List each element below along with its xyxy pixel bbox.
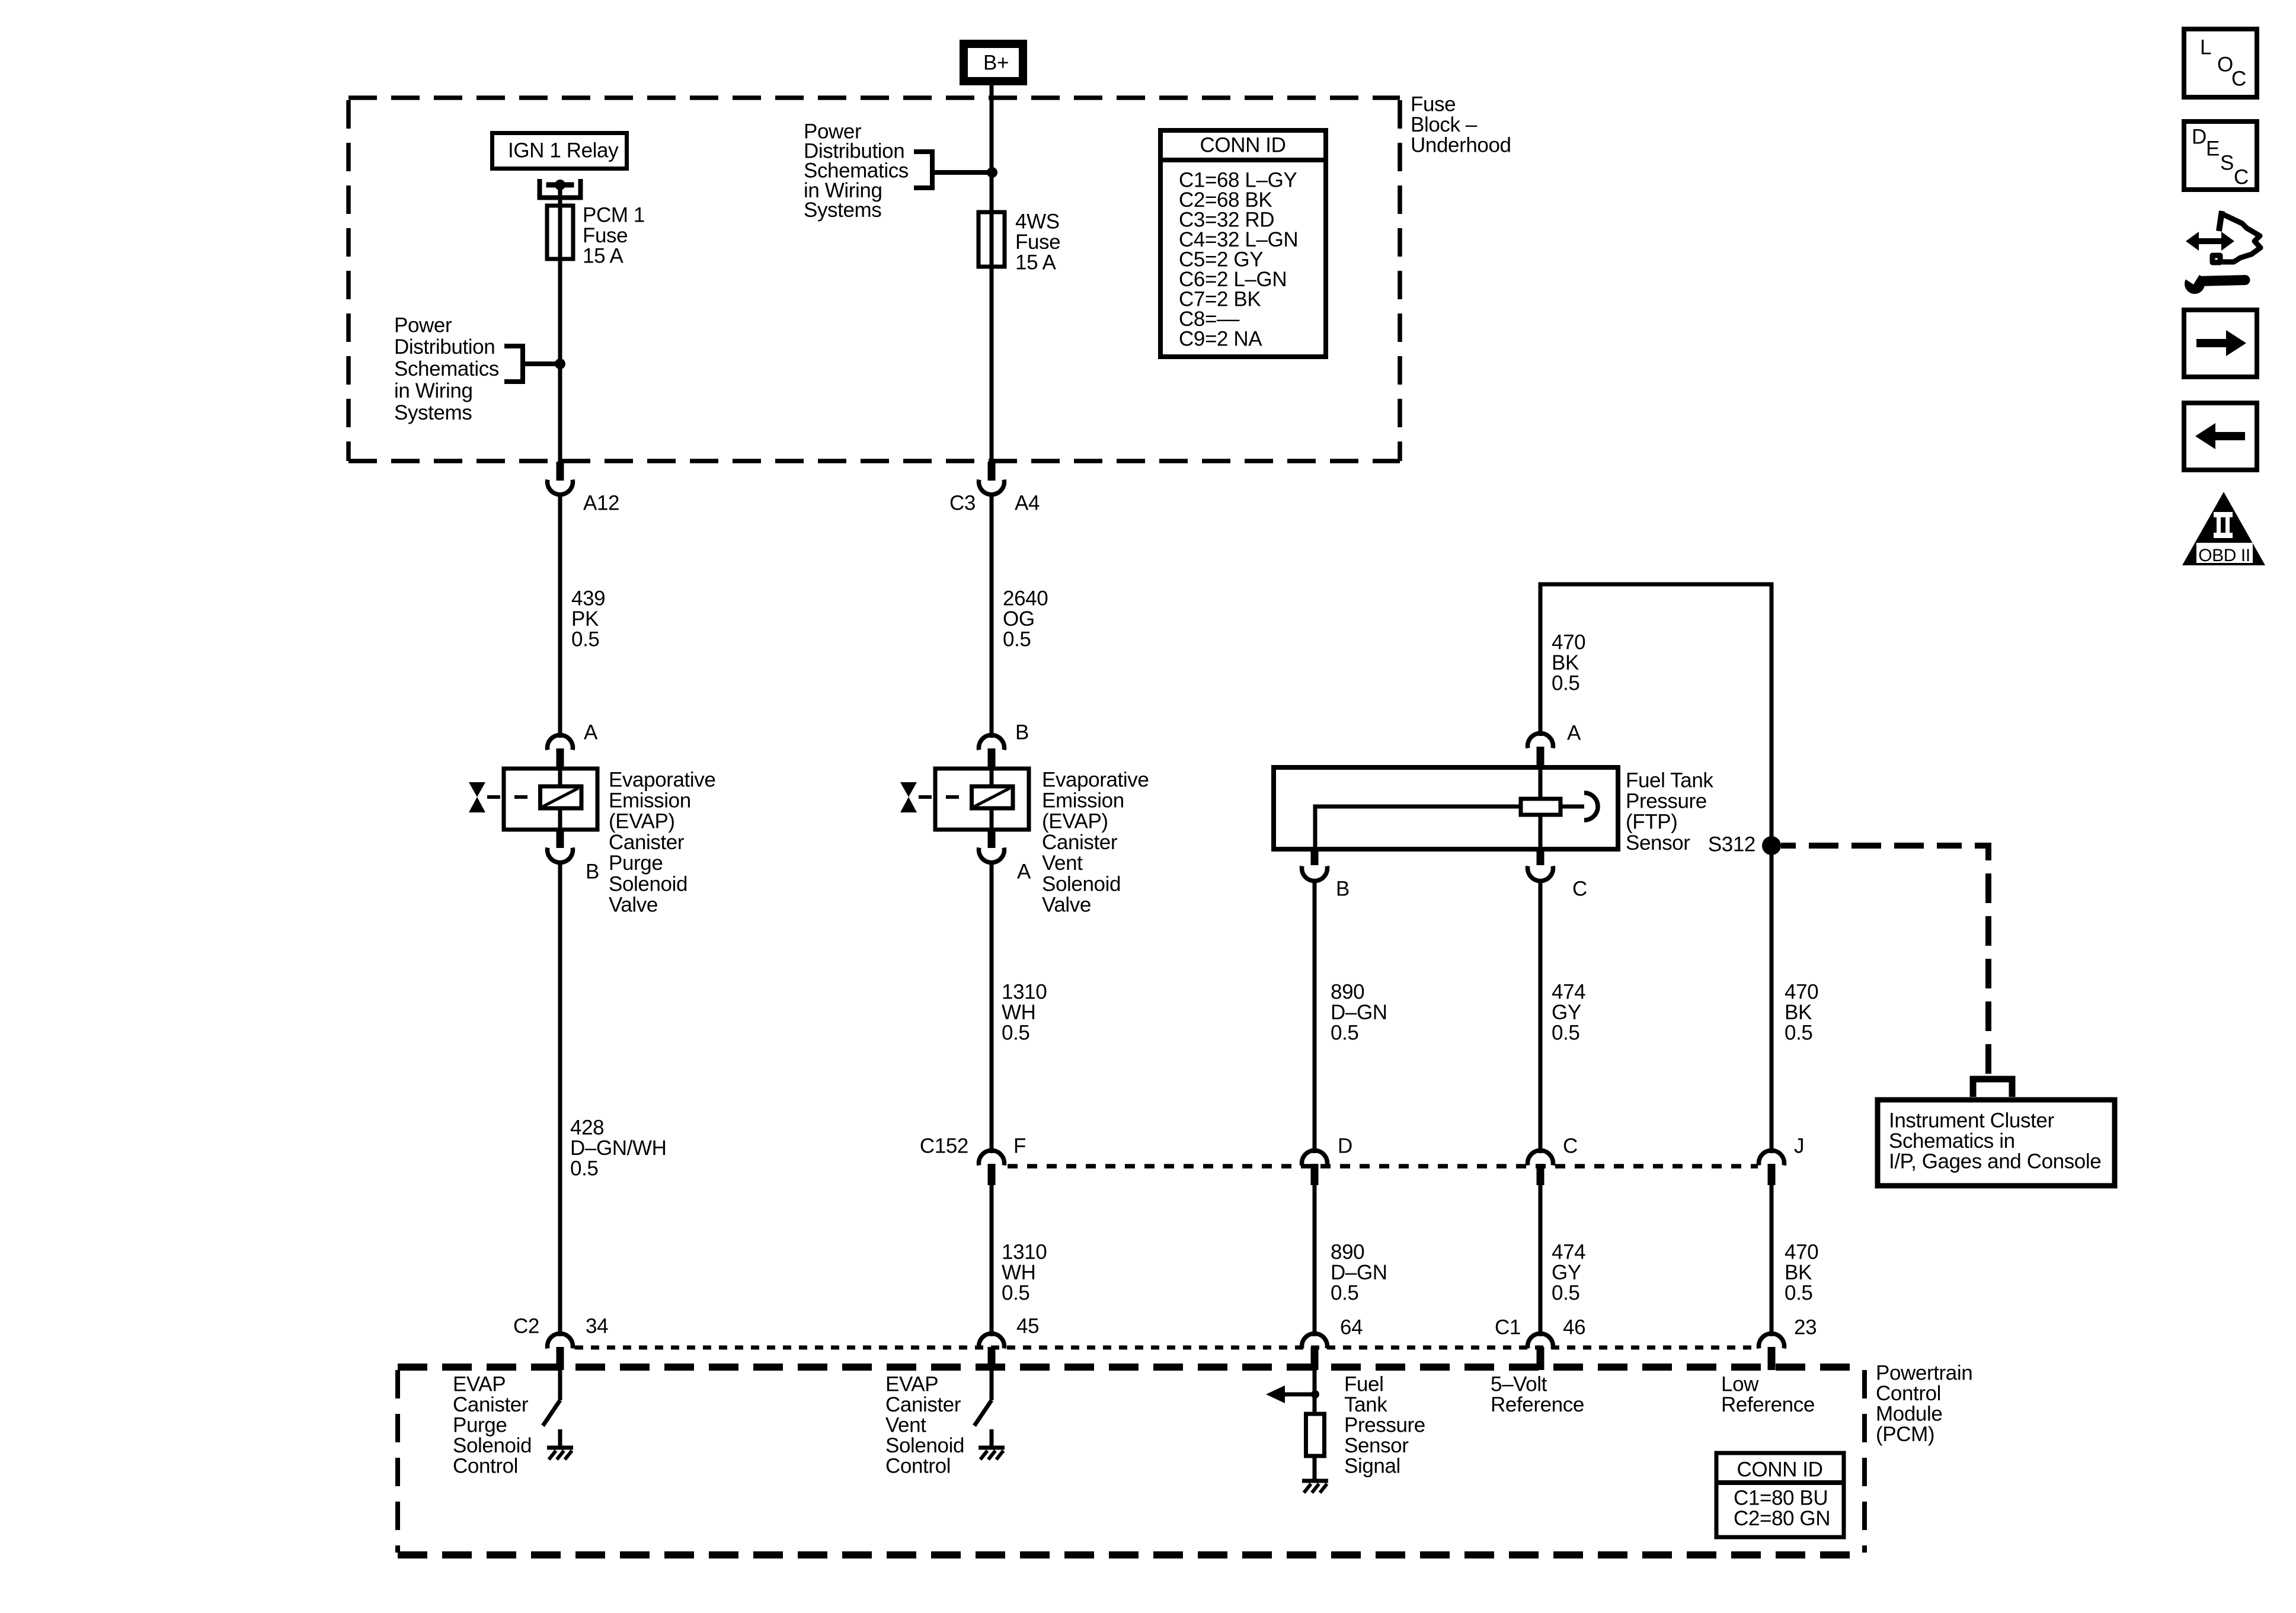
connector cup 45 at PCM [979, 1333, 1005, 1348]
wire: B+ down to fuse block edge [990, 81, 994, 462]
powertrain control module dashed boundary box [398, 1367, 1865, 1555]
svg-text:in Wiring: in Wiring [394, 379, 473, 402]
svg-text:1310: 1310 [1002, 980, 1047, 1003]
svg-text:B: B [1015, 721, 1029, 744]
svg-text:0.5: 0.5 [1002, 1022, 1029, 1045]
switch: EVAP canister vent solenoid control driver [974, 1400, 992, 1426]
label: 45 [1016, 1314, 1039, 1337]
svg-text:BK: BK [1785, 1261, 1812, 1284]
svg-text:Distribution: Distribution [394, 335, 495, 359]
label: Evaporative Emission (EVAP) Canister Purge Solenoid Valve [609, 768, 715, 916]
svg-text:A: A [1567, 721, 1581, 744]
svg-text:PK: PK [571, 607, 599, 631]
svg-text:C9=2 NA: C9=2 NA [1179, 327, 1262, 350]
wire 1310 lower segment [990, 1185, 994, 1336]
connector cup A12 [548, 480, 573, 495]
svg-text:Instrument Cluster: Instrument Cluster [1889, 1109, 2054, 1132]
instrument cluster reference box [1878, 1100, 2115, 1186]
label: 34 [586, 1314, 608, 1337]
svg-text:46: 46 [1563, 1316, 1585, 1339]
svg-text:Module: Module [1876, 1403, 1942, 1426]
svg-text:F: F [1013, 1134, 1026, 1157]
connector pin F [988, 1164, 996, 1185]
svg-text:GY: GY [1552, 1001, 1581, 1024]
svg-text:Purge: Purge [609, 852, 663, 875]
icon: OBD II triangle [2182, 492, 2265, 565]
svg-text:Evaporative: Evaporative [609, 768, 715, 791]
connector cup 23 at PCM [1759, 1333, 1785, 1348]
connector cup 64 at PCM [1302, 1333, 1328, 1348]
wire 470 lower segment [1770, 1185, 1774, 1336]
svg-text:Pressure: Pressure [1344, 1414, 1425, 1437]
relay contact terminals [540, 179, 581, 198]
label: wire 890 D-GN 0.5 (lower) [1331, 1240, 1387, 1304]
connector cup B (vent valve) [979, 735, 1005, 750]
label: Low Reference [1721, 1372, 1815, 1416]
svg-text:0.5: 0.5 [571, 628, 599, 651]
svg-text:C: C [1572, 877, 1587, 900]
svg-text:D: D [1338, 1134, 1352, 1157]
svg-text:Reference: Reference [1721, 1393, 1815, 1416]
connector pin A12 (fuse block side) [557, 462, 564, 481]
svg-text:D–GN/WH: D–GN/WH [570, 1137, 666, 1160]
svg-text:BK: BK [1552, 651, 1579, 674]
svg-text:OG: OG [1003, 607, 1035, 631]
svg-text:Solenoid: Solenoid [885, 1434, 964, 1457]
junction dot FTP signal [1311, 1390, 1319, 1398]
svg-text:474: 474 [1552, 1240, 1585, 1263]
connector cup C below FTP [1528, 866, 1553, 881]
label: 64 [1340, 1316, 1363, 1339]
EVAP canister vent solenoid valve box [935, 769, 1029, 830]
svg-text:Control: Control [1876, 1382, 1941, 1405]
connector pin 34 into PCM [557, 1347, 564, 1370]
connector pin D [1311, 1164, 1319, 1185]
svg-text:Fuse: Fuse [1015, 231, 1060, 254]
connector pin 64 into PCM [1311, 1347, 1319, 1370]
connector pin 46 into PCM [1537, 1347, 1544, 1370]
svg-text:A: A [1017, 860, 1031, 883]
label: Fuel Tank Pressure (FTP) Sensor [1626, 769, 1713, 854]
label: wire 1310 WH 0.5 (lower) [1002, 1240, 1047, 1304]
wire: relay output down to fuse block edge [558, 185, 562, 462]
connector cup D at C152 [1302, 1150, 1328, 1165]
svg-text:0.5: 0.5 [1003, 628, 1031, 651]
svg-text:Systems: Systems [804, 199, 881, 222]
wire 474 lower segment [1539, 1185, 1543, 1336]
label: B (FTP pin) [1336, 877, 1350, 900]
wire 428 segment [558, 862, 562, 1336]
label: C152 [920, 1134, 968, 1157]
connector pin B purge valve [557, 830, 564, 848]
svg-text:IGN 1 Relay: IGN 1 Relay [508, 139, 619, 162]
svg-text:GY: GY [1552, 1261, 1581, 1284]
svg-text:Solenoid: Solenoid [453, 1434, 532, 1457]
svg-text:Valve: Valve [609, 894, 658, 917]
svg-text:0.5: 0.5 [1552, 1282, 1579, 1305]
svg-text:Purge: Purge [453, 1414, 507, 1437]
svg-text:(EVAP): (EVAP) [609, 810, 675, 833]
connector pin 45 into PCM [988, 1347, 996, 1370]
connector cup B (below purge valve) [548, 848, 573, 863]
label: A (FTP pin) [1567, 721, 1581, 744]
svg-text:Powertrain: Powertrain [1876, 1361, 1972, 1384]
svg-text:A4: A4 [1015, 491, 1040, 514]
label: wire 474 GY 0.5 (lower) [1552, 1240, 1585, 1304]
svg-text:0.5: 0.5 [1785, 1022, 1812, 1045]
svg-text:23: 23 [1794, 1316, 1817, 1339]
fuse block - underhood dashed boundary box [348, 98, 1400, 461]
wire into vent driver [990, 1370, 994, 1400]
FTP sensor potentiometer element [1521, 767, 1560, 849]
svg-text:C3: C3 [949, 491, 976, 514]
wire 439 segment [558, 494, 562, 738]
svg-text:Solenoid: Solenoid [609, 872, 687, 895]
valve actuator bowtie symbol (purge) [469, 782, 540, 812]
PCM connector row dotted line [575, 1346, 1758, 1350]
connector pin A purge valve [557, 748, 564, 769]
svg-text:CONN ID: CONN ID [1200, 133, 1286, 156]
label: C2 [513, 1314, 539, 1337]
IGN 1 Relay box [493, 133, 627, 169]
label: J (C152 pin) [1794, 1134, 1804, 1157]
svg-text:Fuel Tank: Fuel Tank [1626, 769, 1713, 792]
svg-text:C2: C2 [513, 1314, 539, 1337]
svg-text:C1=80 BU: C1=80 BU [1734, 1486, 1828, 1509]
label: 4WS Fuse 15 A [1015, 210, 1060, 274]
label: A (vent valve pin) [1017, 860, 1031, 883]
svg-text:Solenoid: Solenoid [1042, 872, 1121, 895]
off-page connector to instrument cluster [1973, 1079, 2012, 1097]
svg-text:EVAP: EVAP [885, 1372, 938, 1396]
label: wire 474 GY 0.5 (upper) [1552, 980, 1585, 1044]
svg-text:Emission: Emission [609, 789, 691, 812]
svg-text:C2=80 GN: C2=80 GN [1734, 1507, 1830, 1530]
connector cup B below FTP [1302, 866, 1328, 881]
svg-text:CONN ID: CONN ID [1737, 1458, 1823, 1481]
svg-text:Canister: Canister [1042, 831, 1118, 854]
connector pin C FTP [1537, 849, 1544, 865]
svg-text:890: 890 [1331, 980, 1364, 1003]
label: Fuse Block - Underhood [1411, 92, 1511, 156]
label: 23 [1794, 1316, 1817, 1339]
svg-text:C152: C152 [920, 1134, 968, 1157]
icon: DESC box [2184, 121, 2257, 190]
wire 1310 upper segment [990, 862, 994, 1153]
svg-text:Fuse: Fuse [583, 224, 628, 247]
svg-text:I/P, Gages and Console: I/P, Gages and Console [1889, 1150, 2101, 1173]
label: C3 [949, 491, 976, 514]
svg-text:Schematics in: Schematics in [1889, 1129, 2015, 1153]
svg-text:0.5: 0.5 [1785, 1282, 1812, 1305]
resistor in PCM (FTP signal pull) [1306, 1414, 1325, 1456]
svg-text:Fuel: Fuel [1344, 1372, 1384, 1396]
B+ battery feed symbol [964, 44, 1023, 81]
wire 890 lower segment [1313, 1185, 1317, 1336]
svg-text:Sensor: Sensor [1344, 1434, 1409, 1457]
label: S312 [1708, 833, 1755, 856]
svg-text:Canister: Canister [609, 831, 685, 854]
label: D (C152 pin) [1338, 1134, 1352, 1157]
wire 470 top loop [1540, 584, 1771, 1153]
svg-text:Control: Control [885, 1455, 951, 1478]
svg-text:B: B [586, 860, 599, 883]
label: A4 [1015, 491, 1040, 514]
ground stub purge driver [558, 1429, 562, 1448]
label: wire 1310 WH 0.5 (upper) [1002, 980, 1047, 1044]
svg-text:PCM 1: PCM 1 [583, 203, 645, 226]
svg-text:Systems: Systems [394, 401, 472, 424]
svg-text:470: 470 [1552, 631, 1585, 654]
svg-text:C: C [1563, 1134, 1578, 1157]
label: wire 890 D-GN 0.5 (upper) [1331, 980, 1387, 1044]
svg-text:45: 45 [1016, 1314, 1039, 1337]
label: C (C152 pin) [1563, 1134, 1578, 1157]
svg-text:34: 34 [586, 1314, 608, 1337]
fuse 4WS 15A [978, 212, 1005, 267]
svg-text:Emission: Emission [1042, 789, 1124, 812]
svg-text:64: 64 [1340, 1316, 1363, 1339]
label: Evaporative Emission (EVAP) Canister Vent Solenoid Valve [1042, 768, 1149, 916]
svg-text:0.5: 0.5 [1552, 672, 1579, 695]
label: wire 470 BK 0.5 (top) [1552, 631, 1585, 695]
connector cup 34 at PCM [548, 1333, 573, 1348]
svg-text:4WS: 4WS [1015, 210, 1060, 233]
label: PCM 1 Fuse 15 A [583, 203, 645, 267]
label: wire 439 PK 0.5 [571, 587, 605, 651]
svg-text:Valve: Valve [1042, 894, 1091, 917]
label: 5-Volt Reference [1491, 1372, 1584, 1416]
connector pin A FTP [1537, 747, 1544, 767]
label: 46 [1563, 1316, 1585, 1339]
wire 470 mid segment label [1785, 980, 1818, 1044]
label: EVAP Canister Vent Solenoid Control [885, 1372, 964, 1477]
connector cup F at C152 [979, 1150, 1005, 1165]
connector cup A (purge valve) [548, 735, 573, 750]
svg-text:Power: Power [394, 313, 452, 337]
svg-text:O: O [2217, 53, 2233, 76]
junction S312 dot [1762, 836, 1781, 855]
svg-text:Vent: Vent [885, 1414, 926, 1437]
connector cup C at C152 [1528, 1150, 1553, 1165]
svg-text:Evaporative: Evaporative [1042, 768, 1149, 791]
junction dot relay output [555, 180, 565, 190]
connector pin B FTP [1311, 849, 1319, 865]
svg-text:C1: C1 [1495, 1316, 1521, 1339]
icon: right arrow box [2184, 310, 2257, 377]
wire into purge driver [558, 1370, 562, 1400]
ground stub vent driver [990, 1429, 994, 1448]
svg-text:S: S [2220, 151, 2234, 174]
svg-text:Schematics: Schematics [394, 357, 499, 380]
svg-text:BK: BK [1785, 1001, 1812, 1024]
label: Powertrain Control Module (PCM) [1876, 1361, 1972, 1446]
label: Fuel Tank Pressure Sensor Signal [1344, 1372, 1425, 1477]
svg-text:OBD II: OBD II [2198, 546, 2250, 565]
svg-text:(PCM): (PCM) [1876, 1423, 1934, 1446]
svg-text:Reference: Reference [1491, 1393, 1584, 1416]
svg-text:Vent: Vent [1042, 852, 1083, 875]
svg-text:0.5: 0.5 [1552, 1022, 1579, 1045]
svg-text:Signal: Signal [1344, 1455, 1400, 1478]
svg-text:C: C [2231, 67, 2246, 90]
fuel tank pressure sensor box [1274, 767, 1618, 849]
label: B (vent valve pin) [1015, 721, 1029, 744]
svg-text:B: B [1336, 877, 1350, 900]
svg-text:2640: 2640 [1003, 587, 1048, 610]
svg-text:Pressure: Pressure [1626, 790, 1707, 813]
connector pin C at C152 [1537, 1164, 1544, 1185]
svg-text:D–GN: D–GN [1331, 1261, 1387, 1284]
svg-text:Fuse: Fuse [1411, 92, 1456, 116]
CONN ID table (PCM) [1716, 1453, 1844, 1537]
node: tap to power distribution schematics (right) [914, 149, 997, 190]
svg-text:E: E [2206, 137, 2220, 160]
svg-text:15 A: 15 A [1015, 251, 1057, 274]
svg-text:S312: S312 [1708, 833, 1755, 856]
label: C (FTP pin) [1572, 877, 1587, 900]
connector cup A (FTP sensor) [1528, 733, 1553, 748]
dashed wire from S312 to instrument cluster [1781, 846, 1988, 1076]
connector pin 23 into PCM [1768, 1347, 1776, 1370]
svg-text:15 A: 15 A [583, 245, 624, 268]
arrow: fuel tank pressure sensor signal [1266, 1385, 1315, 1403]
svg-text:1310: 1310 [1002, 1240, 1047, 1263]
svg-text:D: D [2192, 125, 2207, 148]
svg-text:890: 890 [1331, 1240, 1364, 1263]
icon: left arrow box [2184, 403, 2257, 470]
ground symbol purge driver [547, 1448, 573, 1460]
fuse PCM 1 15A [547, 206, 573, 259]
svg-text:Canister: Canister [885, 1393, 961, 1416]
svg-text:WH: WH [1002, 1261, 1036, 1284]
icon: LOC box [2184, 29, 2257, 97]
label: B (purge valve pin) [586, 860, 599, 883]
connector pin A4 (fuse block side) [988, 462, 996, 481]
connector pin A vent valve [988, 830, 996, 848]
ground symbol vent driver [978, 1448, 1005, 1460]
ground symbol FTP signal [1302, 1481, 1328, 1493]
switch: EVAP canister purge solenoid control driver [543, 1400, 560, 1426]
svg-text:Sensor: Sensor [1626, 831, 1690, 854]
label: wire 2640 OG 0.5 [1003, 587, 1048, 651]
svg-text:(FTP): (FTP) [1626, 811, 1677, 834]
wire 2640 segment [990, 494, 994, 738]
wire FTP signal inside PCM [1313, 1370, 1317, 1414]
connector cup A (below vent valve) [979, 848, 1005, 863]
svg-text:Tank: Tank [1344, 1393, 1387, 1416]
svg-text:A12: A12 [583, 491, 619, 514]
label: A (purge valve pin) [584, 721, 598, 744]
connector cup J at C152 [1759, 1150, 1785, 1165]
svg-text:L: L [2200, 36, 2211, 59]
svg-text:428: 428 [570, 1116, 604, 1139]
label: Power Distribution Schematics in Wiring Systems (right) [804, 120, 909, 222]
label: A12 [583, 491, 619, 514]
connector pin B vent valve [988, 748, 996, 769]
wire resistor to ground [1313, 1456, 1317, 1481]
svg-text:0.5: 0.5 [1331, 1282, 1358, 1305]
svg-text:Low: Low [1721, 1372, 1759, 1396]
label: EVAP Canister Purge Solenoid Control [453, 1372, 532, 1477]
label: Power Distribution Schematics in Wiring Systems (left) [394, 313, 499, 424]
svg-text:0.5: 0.5 [1331, 1022, 1358, 1045]
valve actuator bowtie symbol (vent) [900, 782, 971, 812]
wire 474 upper segment [1539, 881, 1543, 1153]
svg-text:Underhood: Underhood [1411, 134, 1511, 157]
svg-text:WH: WH [1002, 1001, 1036, 1024]
FTP sensor internal wiper feed [1315, 806, 1521, 849]
inline connector C152 dashed line [1008, 1164, 1758, 1169]
svg-text:0.5: 0.5 [1002, 1282, 1029, 1305]
svg-text:474: 474 [1552, 980, 1585, 1003]
node: tap to power distribution schematics (left) [504, 344, 565, 384]
svg-text:439: 439 [571, 587, 605, 610]
svg-text:0.5: 0.5 [570, 1157, 598, 1180]
svg-text:Canister: Canister [453, 1393, 529, 1416]
svg-text:C: C [2234, 165, 2249, 188]
wire 890 upper segment [1313, 881, 1317, 1153]
svg-text:J: J [1794, 1134, 1804, 1157]
label: wire 470 BK 0.5 (lower) [1785, 1240, 1818, 1304]
label: C1 [1495, 1316, 1521, 1339]
connector pin J [1768, 1164, 1776, 1185]
svg-text:470: 470 [1785, 980, 1818, 1003]
svg-text:5–Volt: 5–Volt [1491, 1372, 1547, 1396]
FTP sensor diaphragm symbol [1560, 793, 1598, 820]
label: wire 428 D-GN/WH 0.5 [570, 1116, 666, 1180]
svg-text:EVAP: EVAP [453, 1372, 506, 1396]
label: F [1013, 1134, 1026, 1157]
connector cup A4 [979, 480, 1005, 495]
svg-text:Control: Control [453, 1455, 518, 1478]
svg-text:D–GN: D–GN [1331, 1001, 1387, 1024]
svg-text:B+: B+ [983, 51, 1009, 74]
connector cup 46 at PCM [1528, 1333, 1553, 1348]
svg-text:(EVAP): (EVAP) [1042, 810, 1108, 833]
EVAP canister purge solenoid valve box [504, 769, 597, 830]
svg-text:470: 470 [1785, 1240, 1818, 1263]
svg-text:Block –: Block – [1411, 113, 1478, 136]
svg-text:A: A [584, 721, 598, 744]
CONN ID table (fuse block) [1160, 130, 1326, 357]
icon: repair info (arrow and wrench) [2183, 211, 2260, 294]
